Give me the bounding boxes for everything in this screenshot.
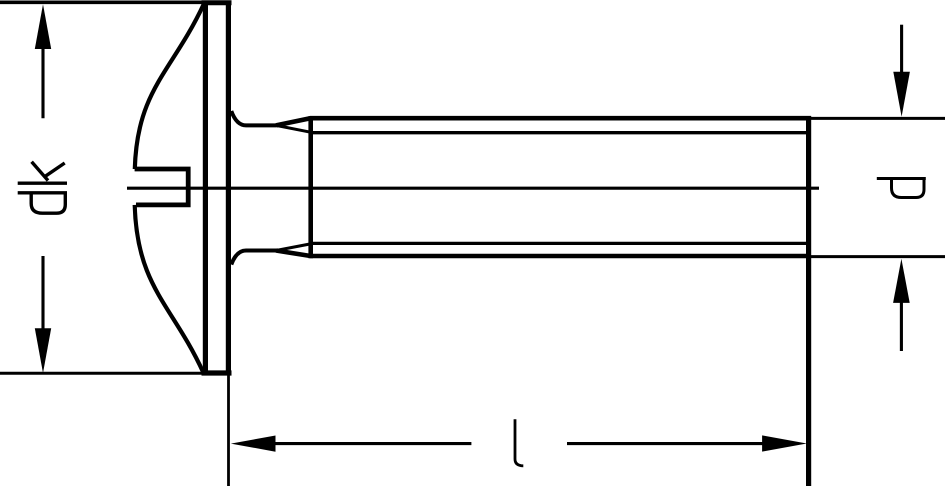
head bottom flat <box>202 370 232 375</box>
shank bottom outer line <box>276 251 806 257</box>
dk bottom extension line <box>0 372 204 375</box>
bottom thread runout diagonal <box>276 244 311 251</box>
top thread runout diagonal <box>276 125 311 132</box>
dk dimension line lower segment <box>41 256 44 330</box>
d lower arrowhead <box>893 259 910 303</box>
head face line right <box>226 3 231 373</box>
label dk (rotated 90deg) <box>18 162 67 213</box>
d dimension line lower segment <box>900 300 903 351</box>
dk upper arrowhead <box>35 4 51 49</box>
d bottom extension line <box>809 255 945 258</box>
label l <box>515 419 523 466</box>
d dimension line upper segment <box>900 25 903 74</box>
label d (rotated 90deg) <box>877 179 926 198</box>
dk lower arrowhead <box>35 328 51 373</box>
dk dimension line upper segment <box>41 46 44 118</box>
shank top thread line <box>311 131 807 134</box>
shank end line <box>806 116 811 486</box>
shank top outer line <box>276 118 806 125</box>
head dome arc upper <box>135 4 204 169</box>
l dimension line left segment <box>273 442 471 445</box>
l left arrowhead <box>231 436 276 452</box>
top neck fillet <box>231 111 276 125</box>
slot <box>135 169 189 205</box>
center line <box>127 187 819 190</box>
shank bottom thread line <box>311 242 807 245</box>
d upper arrowhead <box>893 72 910 117</box>
bottom neck fillet <box>231 251 276 265</box>
d top extension line <box>809 117 945 120</box>
head face line left <box>203 3 208 373</box>
l dimension line right segment <box>567 442 764 445</box>
head dome arc lower <box>135 205 204 373</box>
head top flat <box>202 0 232 5</box>
thread start line <box>308 116 313 258</box>
l right arrowhead <box>762 435 807 451</box>
dk top extension line <box>0 0 204 4</box>
l left extension line <box>227 375 230 486</box>
